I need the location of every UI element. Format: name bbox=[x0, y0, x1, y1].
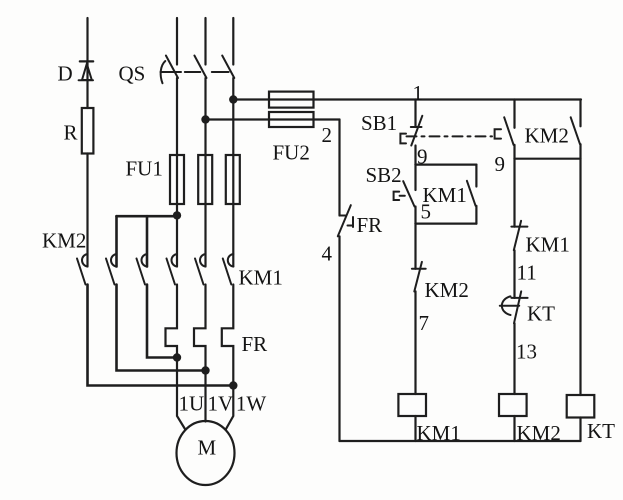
svg-text:2: 2 bbox=[322, 123, 333, 147]
node junction phase1 to braking feed bbox=[173, 211, 181, 219]
wire braking feed drop col c bbox=[146, 216, 149, 266]
svg-text:4: 4 bbox=[322, 242, 333, 266]
thermal relay FR heater phase2 and wire to motor terminal 1V bbox=[194, 285, 206, 422]
wire resistor to KM2 braking contact bbox=[86, 154, 88, 267]
motor M bbox=[177, 421, 235, 485]
contactor KM1 main contact 2 bbox=[195, 254, 206, 285]
wire node2 down to FR contact bbox=[338, 120, 340, 216]
svg-text:1V: 1V bbox=[208, 392, 234, 416]
svg-text:11: 11 bbox=[517, 261, 537, 285]
wire bottom rail bbox=[340, 440, 581, 442]
fuse FU2 element 2 bbox=[269, 112, 314, 127]
pushbutton SB1 NC contact bbox=[400, 116, 422, 146]
wire KM2 contact 3 down to bus 1 bbox=[147, 285, 177, 358]
switch QS linkage bar bbox=[161, 71, 229, 73]
wire node 9 horizontal bbox=[416, 164, 477, 166]
wire SB1 to node 9 bbox=[414, 146, 416, 165]
contactor KM2 main contact 3 bbox=[137, 254, 148, 285]
pushbutton SB1 NO pole contact bbox=[495, 117, 514, 145]
node junction bus1 to phase1 bbox=[173, 353, 181, 361]
svg-text:SB1: SB1 bbox=[361, 111, 397, 135]
wire diode to resistor R bbox=[86, 63, 88, 108]
contact KM2 NO aux bbox=[571, 117, 580, 144]
svg-text:R: R bbox=[64, 121, 78, 145]
svg-text:SB2: SB2 bbox=[366, 163, 402, 187]
svg-text:KT: KT bbox=[587, 419, 615, 443]
svg-text:1U: 1U bbox=[179, 392, 205, 416]
mechanical link SB1 dash-dot bbox=[407, 135, 493, 137]
wire QS to FU1 phase 1 bbox=[176, 78, 178, 267]
svg-text:7: 7 bbox=[419, 311, 430, 335]
wire node 13 to coil KM2 bbox=[513, 323, 515, 394]
svg-text:9: 9 bbox=[495, 152, 506, 176]
contactor KM2 main contact 2 bbox=[106, 254, 117, 285]
wire phase L2 top bbox=[204, 18, 206, 65]
svg-text:13: 13 bbox=[516, 340, 537, 364]
switch QS handle hook bbox=[161, 61, 166, 83]
svg-text:KM2: KM2 bbox=[42, 229, 86, 253]
coil KT bbox=[567, 395, 595, 418]
svg-text:1: 1 bbox=[413, 81, 424, 105]
wire control top rail node 1 bbox=[233, 98, 581, 100]
contactor KM1 main contact 1 bbox=[167, 254, 178, 285]
wire phase L1 top bbox=[176, 18, 178, 65]
wire coil KT to bottom rail bbox=[579, 418, 581, 442]
wire FR contact down to bottom rail bbox=[338, 236, 340, 441]
thermal relay contact FR bbox=[338, 205, 353, 236]
contact KT NC delayed bbox=[500, 291, 528, 323]
wire node 7 to coil KM1 bbox=[414, 291, 416, 394]
wire KM2 aux down to coil KT bbox=[579, 144, 581, 395]
contactor KM2 main contact 1 bbox=[77, 254, 88, 285]
switch QS pole 3 blade bbox=[222, 56, 234, 79]
coil KM2 bbox=[499, 394, 527, 416]
wire node 9 right horizontal bbox=[515, 158, 581, 160]
wire KM2 contact 1 down to bus 3 bbox=[88, 285, 234, 386]
svg-text:KT: KT bbox=[527, 302, 555, 326]
svg-text:M: M bbox=[198, 436, 217, 460]
node junction phase2 to control circuit bbox=[201, 115, 209, 123]
switch QS pole 2 blade bbox=[194, 56, 206, 79]
thermal relay FR heater phase1 and wire to motor terminal 1U bbox=[166, 285, 186, 430]
wire KM2 contact 2 down to bus 2 bbox=[117, 285, 206, 371]
diode D bbox=[79, 61, 94, 80]
svg-text:KM2: KM2 bbox=[517, 421, 561, 445]
svg-text:FU2: FU2 bbox=[273, 141, 310, 165]
fuse FU1 element 3 bbox=[226, 155, 240, 204]
wire rail to SB1 bbox=[414, 100, 416, 128]
wire control node 2 feed bbox=[206, 118, 340, 120]
wire braking feed horizontal bbox=[117, 215, 178, 218]
wire SB1 NO to node 9 right bbox=[513, 145, 515, 159]
wire braking feed drop col b bbox=[115, 216, 118, 266]
wire QS to FU1 phase 3 bbox=[232, 78, 234, 267]
wire QS to FU1 phase 2 bbox=[204, 78, 206, 267]
node junction bus3 to phase3 bbox=[229, 381, 237, 389]
contact KM1 NC interlock bbox=[511, 221, 527, 251]
wire supply to diode D bbox=[86, 18, 88, 62]
svg-text:D: D bbox=[58, 62, 73, 86]
wire coil KM1 to bottom rail bbox=[414, 416, 416, 441]
resistor R bbox=[82, 108, 94, 154]
svg-text:KM1: KM1 bbox=[239, 266, 283, 290]
wire rail to SB1 NO pole bbox=[513, 100, 515, 128]
svg-text:1W: 1W bbox=[236, 392, 267, 416]
wire phase L3 top bbox=[232, 18, 234, 65]
svg-text:KM2: KM2 bbox=[425, 278, 469, 302]
svg-text:FR: FR bbox=[242, 332, 268, 356]
wire node5 to KM2 interlock bbox=[414, 224, 416, 269]
contactor KM1 main contact 3 bbox=[223, 254, 234, 285]
svg-text:FR: FR bbox=[357, 213, 383, 237]
svg-text:KM1: KM1 bbox=[417, 421, 461, 445]
contact KM1 NO self-hold bbox=[467, 165, 477, 224]
pushbutton SB2 NO contact bbox=[394, 165, 416, 207]
wire rail corner to KM2 aux bbox=[579, 100, 581, 127]
wire node 5 horizontal bbox=[416, 223, 477, 225]
svg-text:QS: QS bbox=[119, 62, 146, 86]
svg-text:KM1: KM1 bbox=[423, 183, 467, 207]
node junction phase3 to control circuit bbox=[229, 95, 237, 103]
svg-text:FU1: FU1 bbox=[126, 157, 163, 181]
coil KM1 bbox=[398, 394, 426, 416]
svg-text:KM2: KM2 bbox=[525, 124, 569, 148]
wire coil KM2 to bottom rail bbox=[513, 416, 515, 441]
wire node9 to KM1 interlock bbox=[513, 159, 515, 227]
thermal relay FR heater phase3 and wire to motor terminal 1W bbox=[222, 285, 234, 430]
fuse FU1 element 1 bbox=[170, 155, 184, 204]
fuse FU1 element 2 bbox=[198, 155, 212, 204]
fuse FU2 element 1 bbox=[269, 92, 314, 108]
svg-text:KM1: KM1 bbox=[526, 233, 570, 257]
switch QS pole 1 blade bbox=[166, 56, 178, 79]
contact KM2 NC interlock bbox=[412, 262, 426, 292]
node junction bus2 to phase2 bbox=[201, 366, 209, 374]
wire node 11 bbox=[513, 250, 515, 298]
wire SB2 to node 5 bbox=[414, 207, 416, 224]
